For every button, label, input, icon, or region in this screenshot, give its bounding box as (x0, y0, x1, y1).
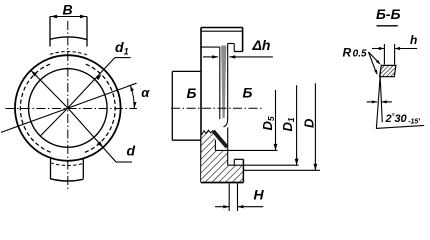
svg-text:Б: Б (187, 85, 197, 101)
svg-text:d: d (127, 143, 136, 159)
svg-text:R0.5: R0.5 (343, 46, 368, 60)
svg-text:B: B (63, 2, 73, 18)
svg-text:H: H (254, 187, 265, 203)
svg-text:α: α (141, 85, 150, 100)
svg-text:Б-Б: Б-Б (376, 6, 401, 22)
svg-text:Δh: Δh (252, 37, 271, 53)
svg-text:h: h (410, 33, 417, 47)
svg-text:Б: Б (243, 85, 253, 101)
svg-text:D: D (302, 118, 317, 128)
